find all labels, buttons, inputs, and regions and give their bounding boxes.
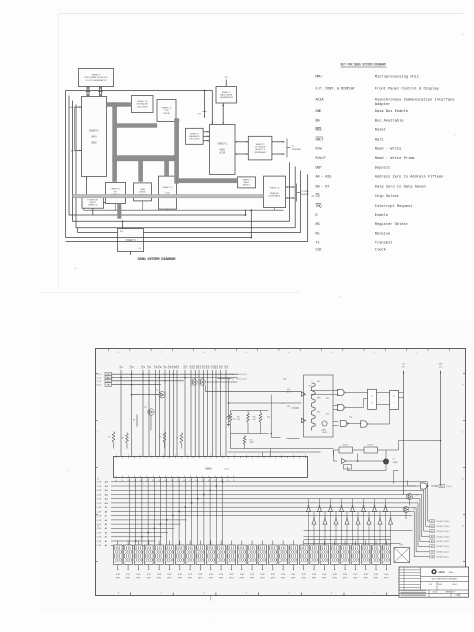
svg-text:8T97: 8T97: [343, 578, 347, 580]
svg-text:D-0: D-0: [138, 248, 141, 250]
svg-text:IC40: IC40: [385, 574, 389, 576]
svg-text:820: 820: [326, 414, 329, 416]
svg-text:8: 8: [210, 454, 211, 456]
svg-text:C-7,8: C-7,8: [97, 490, 102, 492]
svg-text:(2,3,4,7): (2,3,4,7): [446, 486, 452, 488]
svg-text:D0 - D7: D0 - D7: [316, 186, 330, 190]
svg-text:R16: R16: [326, 398, 329, 400]
svg-text:IC11: IC11: [224, 468, 229, 470]
svg-text:098-1: 098-1: [453, 584, 457, 586]
svg-text:RS: RS: [316, 223, 320, 227]
svg-text:26: 26: [152, 480, 154, 482]
svg-text:C-7,8: C-7,8: [97, 482, 102, 484]
svg-text:SELECT: SELECT: [243, 185, 251, 187]
svg-text:MPU: MPU: [91, 135, 97, 138]
svg-text:A5: A5: [105, 523, 107, 526]
svg-text:4: 4: [293, 454, 294, 456]
svg-text:E: E: [316, 214, 318, 218]
svg-text:T1: T1: [281, 403, 283, 405]
svg-text:1: 1: [222, 454, 223, 456]
svg-text:TTY/RS232: TTY/RS232: [255, 147, 267, 149]
svg-text:IC22: IC22: [199, 574, 203, 576]
svg-text:A10: A10: [105, 502, 108, 505]
svg-text:HALT: HALT: [316, 138, 325, 142]
svg-text:8T97: 8T97: [198, 578, 202, 580]
svg-text:C-7,8: C-7,8: [97, 486, 102, 488]
svg-text:C-7,8: C-7,8: [97, 537, 102, 539]
svg-text:IC12: IC12: [400, 545, 404, 547]
svg-text:Q4: Q4: [413, 509, 415, 511]
svg-text:C-7,8: C-7,8: [97, 511, 102, 513]
svg-text:Receive: Receive: [375, 232, 391, 237]
svg-text:C14: C14: [349, 417, 352, 419]
svg-text:A4: A4: [105, 527, 107, 530]
svg-text:C-7,8: C-7,8: [97, 385, 101, 387]
svg-text:A3: A3: [105, 532, 107, 535]
svg-text:28: 28: [165, 480, 167, 482]
svg-text:A2: A2: [105, 536, 107, 539]
svg-text:IC15: IC15: [126, 574, 130, 576]
svg-text:R21 1K: R21 1K: [368, 445, 375, 447]
svg-text:C13: C13: [233, 419, 236, 421]
svg-text:IC39: IC39: [374, 574, 378, 576]
svg-text:TO TAPE: TO TAPE: [301, 190, 310, 193]
svg-text:5: 5: [246, 454, 247, 456]
svg-text:7404: 7404: [283, 379, 287, 381]
svg-text:20: 20: [115, 480, 117, 482]
svg-text:C-7,8: C-7,8: [97, 520, 102, 522]
svg-text:MPU: MPU: [316, 76, 322, 80]
svg-text:DEP: DEP: [316, 167, 322, 171]
svg-text:DECODER: DECODER: [137, 106, 148, 108]
svg-text:C-7,8: C-7,8: [97, 381, 101, 383]
svg-text:IC17: IC17: [147, 574, 151, 576]
svg-text:4: 4: [187, 454, 188, 456]
svg-text:altair: altair: [439, 570, 445, 574]
svg-text:R4: R4: [150, 366, 152, 368]
svg-text:Chip Select: Chip Select: [375, 194, 399, 199]
svg-text:C-7,8: C-7,8: [97, 524, 102, 526]
svg-text:Address Zero to Address Fiftee: Address Zero to Address Fifteen: [375, 175, 444, 180]
svg-text:8T97: 8T97: [322, 578, 326, 580]
svg-text:8T97: 8T97: [312, 578, 316, 580]
svg-text:A15: A15: [105, 481, 108, 484]
svg-text:INTERFACE: INTERFACE: [254, 151, 266, 154]
svg-text:ACIA: ACIA: [220, 151, 226, 154]
svg-text:8T97: 8T97: [333, 578, 337, 580]
svg-text:IC37: IC37: [354, 574, 358, 576]
svg-text:SHEET 1 OF 7: SHEET 1 OF 7: [446, 592, 456, 594]
svg-text:20: 20: [227, 480, 229, 482]
svg-text:D1: D1: [232, 379, 234, 381]
svg-text:8T97: 8T97: [209, 578, 213, 580]
svg-text:IC16: IC16: [137, 574, 141, 576]
svg-text:8T97: 8T97: [374, 578, 378, 580]
svg-text:IC31: IC31: [292, 574, 296, 576]
svg-text:D1: D1: [439, 366, 441, 368]
svg-text:IC19: IC19: [168, 574, 172, 576]
svg-text:Microprocessing Unit: Microprocessing Unit: [375, 75, 419, 80]
svg-text:Q2: Q2: [144, 407, 146, 409]
svg-text:4T10: 4T10: [286, 392, 290, 394]
svg-text:SHEET 16: SHEET 16: [270, 188, 281, 190]
svg-text:R1: R1: [122, 366, 124, 368]
svg-text:2: 2: [281, 454, 282, 456]
svg-text:DWG 1: DWG 1: [456, 595, 461, 597]
svg-text:IC38: IC38: [364, 574, 368, 576]
svg-text:8T97: 8T97: [178, 578, 182, 580]
svg-text:A13: A13: [105, 489, 108, 492]
svg-text:IC34: IC34: [323, 574, 327, 576]
svg-text:A12: A12: [105, 493, 108, 496]
svg-text:C-7,8: C-7,8: [97, 528, 102, 530]
svg-text:IC24: IC24: [219, 574, 223, 576]
svg-text:CS: CS: [316, 195, 320, 199]
svg-text:R9: R9: [133, 420, 135, 422]
svg-text:SHEET 2: SHEET 2: [222, 92, 231, 94]
svg-text:A9: A9: [105, 506, 107, 509]
svg-text:220: 220: [237, 419, 240, 421]
svg-text:A0: A0: [105, 544, 107, 547]
svg-text:24: 24: [140, 480, 142, 482]
svg-text:IC16: IC16: [309, 386, 313, 388]
svg-text:Read - Write Prime: Read - Write Prime: [375, 156, 415, 161]
svg-text:R19: R19: [222, 365, 224, 368]
svg-text:Deposit: Deposit: [375, 166, 391, 171]
svg-text:A1: A1: [105, 540, 107, 543]
svg-text:7: 7: [151, 454, 152, 456]
svg-text:GENERATOR: GENERATOR: [220, 96, 233, 99]
svg-text:Adapter: Adapter: [375, 102, 391, 107]
svg-text:RAM ADDR: RAM ADDR: [189, 135, 200, 138]
svg-text:IC33: IC33: [312, 574, 316, 576]
svg-text:R20: R20: [227, 365, 229, 368]
svg-text:SHEET 2: SHEET 2: [256, 144, 265, 146]
svg-text:SHEET 4: SHEET 4: [111, 189, 120, 191]
svg-text:F10: F10: [287, 389, 290, 391]
svg-text:(SHEET 2): (SHEET 2): [88, 205, 97, 207]
svg-text:TWO PHASE NON-OVLP: TWO PHASE NON-OVLP: [84, 76, 109, 79]
svg-text:Enable: Enable: [375, 213, 388, 218]
svg-text:C-7,8: C-7,8: [97, 545, 102, 547]
svg-text:F.P.: F.P.: [114, 191, 118, 193]
svg-text:2: 2: [175, 454, 176, 456]
svg-text:8T97: 8T97: [353, 578, 357, 580]
svg-text:8T97: 8T97: [136, 578, 140, 580]
svg-text:Read - Write: Read - Write: [375, 146, 402, 151]
svg-text:680b SYSTEM DIAGRAM: 680b SYSTEM DIAGRAM: [138, 257, 177, 262]
svg-text:8T97: 8T97: [291, 578, 295, 580]
svg-text:DBE: DBE: [316, 110, 322, 114]
svg-text:C-7,8: C-7,8: [97, 374, 101, 376]
svg-text:1: 1: [116, 454, 117, 456]
svg-text:22: 22: [127, 480, 129, 482]
svg-text:20: 20: [171, 480, 173, 482]
svg-text:IC30: IC30: [281, 574, 285, 576]
svg-text:C-7,8: C-7,8: [97, 507, 102, 509]
svg-text:23: 23: [189, 480, 191, 482]
svg-text:25: 25: [146, 480, 148, 482]
svg-text:SHEET 2: SHEET 2: [89, 129, 100, 132]
svg-text:TERMINAL: TERMINAL: [292, 148, 302, 151]
svg-text:Transmit: Transmit: [375, 241, 393, 246]
svg-text:Tx: Tx: [316, 242, 320, 246]
svg-text:5: 5: [140, 454, 141, 456]
svg-text:A14: A14: [105, 485, 108, 488]
svg-text:RAM: RAM: [140, 188, 145, 191]
svg-text:4 MHZ: 4 MHZ: [393, 462, 398, 464]
svg-text:SHEET 10: SHEET 10: [163, 187, 174, 189]
svg-text:30PF: 30PF: [250, 442, 254, 444]
svg-text:IRQ: IRQ: [107, 381, 111, 383]
svg-text:IC14: IC14: [116, 574, 120, 576]
svg-text:ACIA: ACIA: [316, 99, 325, 103]
svg-text:680 COMPUTER SCHEMATIC: 680 COMPUTER SCHEMATIC: [431, 577, 458, 580]
svg-text:3: 3: [234, 454, 235, 456]
svg-text:IC21: IC21: [188, 574, 192, 576]
svg-text:A0 - A15: A0 - A15: [316, 176, 332, 180]
svg-text:7: 7: [258, 454, 259, 456]
svg-text:C-7,8: C-7,8: [97, 503, 102, 505]
svg-text:IC35: IC35: [333, 574, 337, 576]
svg-text:Register Select: Register Select: [375, 222, 408, 227]
svg-text:IC27: IC27: [250, 574, 254, 576]
svg-text:6: 6: [305, 454, 306, 456]
svg-text:C-7,8: C-7,8: [97, 494, 102, 496]
svg-text:DECODER: DECODER: [189, 139, 200, 141]
svg-text:8T97: 8T97: [147, 578, 151, 580]
svg-text:PROM: PROM: [163, 113, 170, 115]
svg-text:R/W-P: R/W-P: [316, 156, 326, 161]
svg-text:Clock: Clock: [375, 247, 387, 252]
svg-text:SIZE: SIZE: [429, 584, 432, 586]
svg-text:R11: R11: [186, 365, 188, 368]
svg-text:6: 6: [199, 454, 200, 456]
svg-text:8T97: 8T97: [126, 578, 130, 580]
svg-text:150PF: 150PF: [322, 432, 327, 434]
svg-text:READER: READER: [270, 192, 279, 195]
svg-text:8T97: 8T97: [188, 578, 192, 580]
svg-text:IC32: IC32: [302, 574, 306, 576]
svg-text:Rx: Rx: [316, 233, 320, 237]
svg-text:Data Bus Enable: Data Bus Enable: [375, 109, 408, 114]
svg-text:A7: A7: [105, 515, 107, 518]
svg-text:Q3: Q3: [416, 495, 418, 497]
svg-text:21: 21: [121, 480, 123, 482]
svg-text:RES: RES: [316, 129, 322, 133]
svg-text:27: 27: [214, 480, 216, 482]
svg-text:P10: P10: [317, 381, 320, 383]
svg-text:R10: R10: [178, 365, 180, 368]
svg-text:8T97: 8T97: [281, 578, 285, 580]
svg-text:IC28: IC28: [261, 574, 265, 576]
svg-text:SHEET 10: SHEET 10: [162, 108, 173, 110]
svg-text:23: 23: [134, 480, 136, 482]
svg-text:R3: R3: [144, 366, 146, 368]
svg-text:8T97: 8T97: [364, 578, 368, 580]
svg-text:C-7,8: C-7,8: [97, 533, 102, 535]
svg-text:INTERFACE: INTERFACE: [269, 195, 281, 198]
svg-text:SHEET 10: SHEET 10: [137, 101, 148, 103]
svg-text:C-7,8: C-7,8: [97, 516, 102, 518]
svg-text:680b: 680b: [449, 572, 455, 574]
svg-text:6800: 6800: [205, 466, 212, 470]
svg-text:C 2400: C 2400: [437, 584, 443, 586]
svg-text:Data Zero to Data Seven: Data Zero to Data Seven: [375, 186, 426, 190]
svg-text:8T97: 8T97: [302, 578, 306, 580]
svg-text:R2: R2: [133, 366, 135, 368]
svg-text:Front Panel Control & Display: Front Panel Control & Display: [375, 87, 440, 92]
svg-text:A11: A11: [105, 498, 108, 501]
svg-text:Φ2: Φ2: [440, 485, 442, 488]
svg-text:F.P. CONT. & DISPLAY: F.P. CONT. & DISPLAY: [316, 88, 356, 92]
svg-text:8T97: 8T97: [116, 578, 120, 580]
svg-text:R14: R14: [267, 417, 270, 419]
svg-text:IC36: IC36: [343, 574, 347, 576]
svg-text:8T97: 8T97: [240, 578, 244, 580]
svg-text:IRQ: IRQ: [316, 205, 322, 209]
svg-text:Halt: Halt: [375, 137, 384, 142]
svg-text:A6: A6: [105, 519, 107, 522]
svg-text:Reset: Reset: [375, 129, 386, 133]
svg-text:8T97: 8T97: [167, 578, 171, 580]
svg-text:D0: D0: [232, 374, 234, 376]
svg-text:STATIC: STATIC: [139, 191, 147, 194]
svg-text:24: 24: [196, 480, 198, 482]
svg-text:A13: A13: [120, 230, 123, 233]
svg-text:BAUD RATE: BAUD RATE: [220, 94, 232, 97]
svg-text:NMI: NMI: [107, 385, 111, 387]
svg-text:BUS D-1 (2,3): BUS D-1 (2,3): [237, 379, 247, 381]
svg-text:6800: 6800: [91, 141, 97, 144]
svg-text:25: 25: [202, 480, 204, 482]
svg-text:BUS D-0 (2,3): BUS D-0 (2,3): [237, 374, 247, 376]
svg-text:READER: READER: [301, 193, 310, 196]
svg-text:R10: R10: [317, 412, 320, 414]
svg-text:330: 330: [253, 419, 256, 421]
svg-text:27: 27: [158, 480, 160, 482]
svg-text:R20 1K: R20 1K: [343, 445, 350, 447]
svg-text:Q1: Q1: [155, 390, 157, 392]
svg-text:8T97: 8T97: [271, 578, 275, 580]
svg-text:D5: D5: [402, 366, 404, 368]
svg-text:8T97: 8T97: [219, 578, 223, 580]
svg-text:CLOCK GENERATOR: CLOCK GENERATOR: [86, 79, 107, 82]
svg-text:SHEET 2: SHEET 2: [92, 75, 101, 77]
svg-text:8T97: 8T97: [157, 578, 161, 580]
svg-text:8T97: 8T97: [229, 578, 233, 580]
svg-text:C-7,8: C-7,8: [97, 541, 102, 543]
svg-text:Interrupt Request: Interrupt Request: [375, 205, 413, 209]
svg-text:IC18: IC18: [157, 574, 161, 576]
svg-text:8T97: 8T97: [384, 578, 388, 580]
svg-text:IC29: IC29: [271, 574, 275, 576]
svg-text:21: 21: [233, 480, 235, 482]
svg-text:SHEET 2: SHEET 2: [217, 142, 228, 145]
svg-text:8T97: 8T97: [260, 578, 264, 580]
svg-text:X1: X1: [393, 459, 395, 461]
svg-text:8T97: 8T97: [250, 578, 254, 580]
svg-text:22: 22: [183, 480, 185, 482]
svg-text:IC26: IC26: [240, 574, 244, 576]
svg-text:Bus Available: Bus Available: [375, 119, 404, 124]
svg-text:SELECT &: SELECT &: [255, 149, 266, 151]
svg-text:21: 21: [177, 480, 179, 482]
svg-text:3: 3: [128, 454, 129, 456]
svg-text:IC20: IC20: [178, 574, 182, 576]
svg-text:U10: U10: [287, 406, 290, 408]
svg-text:26: 26: [208, 480, 210, 482]
svg-text:IC23: IC23: [209, 574, 213, 576]
svg-text:IC25: IC25: [230, 574, 234, 576]
svg-text:R16: R16: [209, 365, 211, 368]
svg-text:C-7,8: C-7,8: [97, 378, 101, 380]
svg-text:A8: A8: [105, 510, 107, 513]
svg-text:ROM ADDR: ROM ADDR: [137, 103, 149, 106]
svg-text:C-7,8: C-7,8: [97, 499, 102, 501]
svg-text:9: 9: [163, 454, 164, 456]
svg-text:R6: R6: [161, 366, 163, 368]
